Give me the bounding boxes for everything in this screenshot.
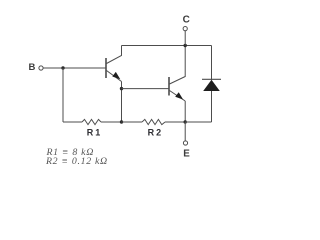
svg-text:C: C (183, 14, 190, 25)
svg-text:R1: R1 (87, 127, 103, 137)
wire R2 to E node (165, 121, 185, 123)
wire bottom rail left segment (63, 121, 82, 123)
transistor Q1 (106, 46, 122, 82)
resistor R2 (142, 119, 165, 124)
transistor Q2 (169, 46, 185, 102)
wire C terminal (184, 31, 186, 46)
wire R1 to node (101, 121, 122, 123)
node C junction (184, 44, 187, 47)
wire Q1 emitter vertical (121, 82, 123, 123)
node Q1 emitter / Q2 base tap (120, 87, 123, 90)
wire E terminal (184, 122, 186, 141)
svg-text:E: E (183, 148, 190, 159)
node at B branch (61, 66, 64, 69)
wire Q2 base (122, 88, 170, 90)
diode D1 (202, 46, 221, 123)
node E junction (184, 120, 187, 123)
terminal B (39, 66, 43, 70)
svg-text:R2: R2 (148, 127, 164, 137)
svg-text:B: B (29, 62, 36, 73)
node bottom rail Q1 emitter (120, 120, 123, 123)
terminal C (183, 27, 187, 31)
wire node to R2 (122, 121, 143, 123)
svg-text:R2 ≡ 0.12 kΩ: R2 ≡ 0.12 kΩ (45, 156, 108, 167)
wire Q2 emitter vertical (184, 101, 186, 122)
terminal E (183, 141, 187, 145)
wire B to Q1 base (43, 67, 106, 69)
wire bottom rail right to diode (185, 121, 211, 123)
resistor R1 (82, 119, 101, 124)
wire left vertical down to R1 (62, 68, 64, 122)
wire top rail (122, 45, 212, 47)
